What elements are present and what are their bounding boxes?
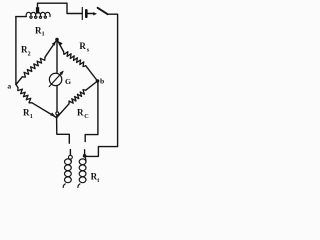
svg-text:R: R [77, 108, 84, 118]
svg-text:a: a [7, 82, 11, 91]
svg-text:b: b [100, 77, 104, 86]
svg-text:1: 1 [30, 114, 33, 120]
svg-text:G: G [65, 77, 71, 86]
svg-text:t: t [97, 178, 99, 184]
svg-text:C: C [84, 113, 88, 120]
svg-text:2: 2 [28, 52, 31, 58]
svg-text:R: R [79, 41, 86, 51]
svg-text:1: 1 [42, 31, 45, 37]
